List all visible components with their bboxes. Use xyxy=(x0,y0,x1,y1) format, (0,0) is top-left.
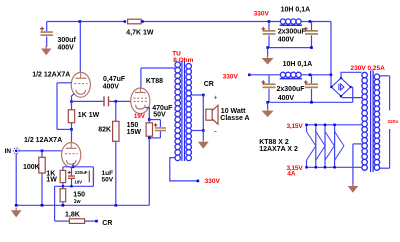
label heater 3,15V top xyxy=(287,123,304,130)
svg-text:CR: CR xyxy=(204,81,214,88)
svg-text:10 Watt: 10 Watt xyxy=(221,108,246,115)
svg-text:15W: 15W xyxy=(127,129,142,136)
bridge corner squares xyxy=(330,77,351,97)
label IN xyxy=(5,148,12,155)
wire J1 shield to ground bus xyxy=(15,154,17,206)
wire bridge AC2 to transformer tap xyxy=(342,97,362,99)
svg-text:KT88 X 2: KT88 X 2 xyxy=(259,139,289,146)
node choke L1 left xyxy=(268,20,271,23)
svg-text:4A: 4A xyxy=(287,171,296,178)
capacitor C2 220uF 16V plates xyxy=(68,175,75,179)
wire cathode loop top xyxy=(149,119,160,121)
wire V2 cathode lead xyxy=(72,163,74,167)
label V1 xyxy=(32,72,70,79)
wire KT88 plate lead xyxy=(140,68,142,92)
label R7 value xyxy=(127,122,142,136)
wire 330V terminal to choke L2 xyxy=(249,74,280,76)
wire TU primary bottom to 330V terminal xyxy=(170,158,198,181)
svg-text:220v: 220v xyxy=(388,119,399,125)
capacitor C1 300uF 400V lead xyxy=(46,22,48,48)
svg-text:1,8K: 1,8K xyxy=(65,211,80,218)
wire node to bridge left corner xyxy=(330,75,332,86)
wire C4 to KT88 grid xyxy=(109,100,131,102)
wire bridge minus to filter rail xyxy=(351,87,353,102)
node rectifier plus junction xyxy=(330,74,333,77)
svg-text:82K: 82K xyxy=(98,126,111,133)
node ground bus at R3 xyxy=(41,204,44,207)
resistor R3 100K xyxy=(39,157,45,173)
svg-text:Classe A: Classe A xyxy=(220,115,249,122)
transformer TA core xyxy=(371,71,374,173)
svg-text:400V: 400V xyxy=(58,44,75,51)
label R6 value xyxy=(65,211,80,218)
wire filter1 bottom rail xyxy=(268,47,312,49)
node filter2 rail right xyxy=(310,101,313,104)
resistor R4 1K 1W leads xyxy=(62,167,64,187)
wire TU secondary bottom tap xyxy=(191,130,203,132)
label C6 C7 value xyxy=(278,29,307,44)
wire choke L2 to rectifier xyxy=(301,74,331,76)
label heater current 4A xyxy=(287,171,296,178)
capacitor C6 plus xyxy=(261,27,265,31)
node speaker minus junction xyxy=(202,129,205,132)
resistor R7 150 15W xyxy=(146,123,152,136)
label speaker plus xyxy=(214,96,218,102)
wire cathode loop right upper xyxy=(159,120,161,128)
capacitor C1 300uF 400V plates xyxy=(41,31,53,36)
wire input to V2 grid xyxy=(19,150,62,152)
label CR feedback xyxy=(102,220,112,227)
wire filter1 rail to ground xyxy=(267,48,269,57)
wire filter2 rail to ground xyxy=(267,102,269,110)
wire B+ rail drop to rectifier node xyxy=(330,22,332,75)
svg-text:16V: 16V xyxy=(74,180,82,185)
capacitor C6 2x300uF 400V lead xyxy=(268,22,270,48)
wire cathode net right leg xyxy=(92,167,94,187)
label speaker minus xyxy=(214,127,217,136)
resistor R3 100K leads xyxy=(41,151,43,206)
wire TA primary bottom to mains xyxy=(380,129,390,168)
svg-text:220uF: 220uF xyxy=(75,170,88,175)
triode V2 1/2 12AX7A lower xyxy=(62,143,81,168)
resistor R6 1,8K feedback xyxy=(69,219,84,224)
triode V1 1/2 12AX7A upper xyxy=(71,72,90,97)
svg-text:150: 150 xyxy=(73,192,85,199)
wire V2 plate lead xyxy=(70,129,72,148)
svg-text:150: 150 xyxy=(127,122,139,129)
svg-text:CR: CR xyxy=(102,220,112,227)
resistor R8 82K xyxy=(113,121,119,141)
label C3 value xyxy=(102,170,114,183)
resistor R5 150 1w xyxy=(60,189,66,202)
capacitor C2 plus sign xyxy=(68,171,71,174)
label 330V at TU xyxy=(205,178,221,185)
svg-text:400V: 400V xyxy=(103,83,120,90)
wire B+ rail mid segment xyxy=(143,21,280,23)
node filter2 rail left xyxy=(266,101,269,104)
ground below C1 xyxy=(41,46,52,55)
node choke L1 right xyxy=(309,20,312,23)
svg-text:2x300uF: 2x300uF xyxy=(278,29,307,36)
svg-text:230V 0,25A: 230V 0,25A xyxy=(351,65,386,72)
node C2 bottom junction xyxy=(70,185,72,187)
wire V1 plate lead xyxy=(79,22,81,78)
node V1 plate tap on B+ rail xyxy=(79,20,82,23)
pentode V3 KT88 xyxy=(131,88,150,114)
node CR feedback terminal xyxy=(95,220,98,223)
capacitor C4 0,47uF 400V plates xyxy=(103,96,109,106)
capacitor C9 plates xyxy=(305,83,318,88)
resistor R7 150 15W leads xyxy=(148,120,150,138)
label R5 value xyxy=(73,192,85,205)
wire plate to OT primary top xyxy=(141,67,175,69)
wire filter2 bottom rail to rectifier minus xyxy=(268,101,353,103)
svg-text:330V: 330V xyxy=(205,178,221,185)
capacitor C5 470uF 50V plates xyxy=(155,127,166,131)
node ground bus at J1 xyxy=(15,204,18,207)
transformer TU secondary winding xyxy=(186,64,192,161)
wire heater bottom rail xyxy=(307,166,362,168)
node grid/R3 junction xyxy=(41,150,44,153)
svg-text:10H 0,1A: 10H 0,1A xyxy=(281,7,311,14)
capacitor C8 plates xyxy=(263,83,276,88)
transformer TA secondary winding xyxy=(362,72,368,170)
wire TA center tap to ground xyxy=(353,144,362,184)
svg-text:1/2 12AX7A: 1/2 12AX7A xyxy=(24,137,62,144)
svg-text:330V: 330V xyxy=(254,10,270,17)
svg-text:300uf: 300uf xyxy=(58,37,77,44)
svg-text:330V: 330V xyxy=(223,73,239,80)
node ground bus at R5 xyxy=(62,204,65,207)
wire speaker branch vertical xyxy=(202,95,204,131)
node R1 left terminal xyxy=(123,20,126,23)
wire bridge AC1 to transformer top xyxy=(341,72,362,78)
label mains 220v xyxy=(388,119,399,125)
resistor R1 4,7K 1W xyxy=(128,19,142,24)
wire cathode loop right lower xyxy=(159,131,161,138)
transformer TA primary winding xyxy=(374,74,380,170)
transformer TU core xyxy=(182,61,185,161)
label R2 value xyxy=(78,112,100,119)
node 330V terminal at TU xyxy=(197,180,200,183)
svg-text:1K 1W: 1K 1W xyxy=(78,112,100,119)
node filter1 rail right xyxy=(310,46,313,49)
svg-text:1W: 1W xyxy=(46,177,57,184)
capacitor C3 1uF 50V plates xyxy=(89,171,94,183)
capacitor C9 plus xyxy=(304,80,308,84)
wire B+ rail right segment xyxy=(301,21,331,23)
svg-text:-: - xyxy=(214,127,217,136)
node 330V output terminal xyxy=(248,74,251,77)
wire V1 cathode to C4 xyxy=(72,100,104,102)
svg-text:2x300uF: 2x300uF xyxy=(277,86,306,93)
label V2 xyxy=(24,137,62,144)
label V3 xyxy=(146,78,163,85)
label R8 value xyxy=(98,126,111,133)
wire speaker minus to ground xyxy=(202,131,204,141)
wire cathode network to ground bus xyxy=(148,138,150,205)
transformer TU primary winding xyxy=(175,62,181,161)
label TU impedance 8 Ohm xyxy=(173,57,193,64)
label TU xyxy=(172,51,181,58)
resistor R5 150 1w leads xyxy=(62,186,64,205)
label R4 value xyxy=(46,170,57,183)
label CR at speaker xyxy=(204,81,214,88)
label C2 value xyxy=(74,170,88,185)
label heater 3,15V bottom xyxy=(287,165,304,172)
wire cathode loop bottom xyxy=(149,137,160,139)
label 330V mid xyxy=(223,73,239,80)
wire V1 grid to lower plate link xyxy=(57,83,72,130)
capacitor C8 2x300uF 400V lead xyxy=(268,75,270,103)
resistor R8 82K leads xyxy=(115,101,117,205)
wire R6 to CR terminal xyxy=(85,220,97,222)
node ground bus at R8 xyxy=(115,204,118,207)
bridge rectifier D1 diamond xyxy=(331,78,350,96)
wire KT88 cathode lead xyxy=(145,108,149,120)
svg-text:50V: 50V xyxy=(102,176,114,183)
ground TA center tap xyxy=(348,184,359,193)
inductor L2 10H 0,1A xyxy=(280,72,302,78)
svg-text:10H 0,1A: 10H 0,1A xyxy=(283,61,313,68)
node lower plate junction xyxy=(70,128,73,131)
svg-text:1/2 12AX7A: 1/2 12AX7A xyxy=(32,72,70,79)
capacitor C6 plates xyxy=(263,30,276,35)
node KT88 cathode bottom junction xyxy=(148,137,151,140)
svg-text:400V: 400V xyxy=(278,95,295,102)
wire cathode net bottom rail xyxy=(55,185,94,187)
label V3 cathode voltage 19V xyxy=(134,113,146,120)
label TA rating 230V 0,25A xyxy=(351,65,386,72)
ground filter2 xyxy=(262,108,274,117)
label R1 value xyxy=(126,30,154,37)
label R3 value xyxy=(23,164,40,171)
node speaker plus junction xyxy=(202,94,205,97)
wire heater top rail xyxy=(307,124,362,126)
svg-text:1w: 1w xyxy=(74,199,82,205)
connector J1 input jack xyxy=(13,148,19,154)
svg-text:3,15V: 3,15V xyxy=(287,123,304,130)
wire feedback from cathode net xyxy=(55,186,70,221)
label C4 value xyxy=(103,76,126,90)
inductor L1 10H 0,1A xyxy=(280,19,302,25)
resistor R4 1K 1W xyxy=(60,170,66,182)
wire V1 cathode lead xyxy=(72,94,75,102)
node V1 cathode junction xyxy=(70,100,73,103)
label heater loads 12AX7A X 2 xyxy=(259,146,298,153)
label C5 value xyxy=(152,105,173,118)
node choke L2 right xyxy=(309,74,312,77)
label C1 value xyxy=(58,37,77,51)
node KT88 grid junction xyxy=(115,100,118,103)
capacitor C9 2x300uF 400V lead xyxy=(311,75,313,103)
heater filaments F1-F4 xyxy=(305,124,344,169)
capacitor C7 2x300uF 400V lead xyxy=(311,22,313,48)
svg-text:4,7K 1W: 4,7K 1W xyxy=(126,30,154,37)
wire cathode net top rail xyxy=(63,166,94,168)
wire TA primary top to mains xyxy=(380,76,390,111)
label speaker 10 Watt xyxy=(220,108,249,122)
label 330V top xyxy=(254,10,270,17)
ground filter1 xyxy=(262,56,274,65)
svg-text:12AX7A X 2: 12AX7A X 2 xyxy=(259,146,298,153)
ground symbol main xyxy=(11,208,22,218)
capacitor C5 plus sign xyxy=(154,123,158,127)
label C8 C9 value xyxy=(277,86,306,102)
label heater loads KT88 X 2 xyxy=(259,139,289,146)
ground below speaker xyxy=(198,139,209,149)
capacitor C2 220uF 16V leads xyxy=(71,167,73,187)
wire B+ top rail left segment xyxy=(47,21,125,23)
capacitor C7 plates xyxy=(305,30,318,35)
capacitor C8 plus xyxy=(261,80,265,84)
resistor R2 1K 1W leads xyxy=(71,102,73,130)
node R1 right terminal xyxy=(141,20,144,23)
node filter1 rail left xyxy=(266,46,269,49)
svg-text:400V: 400V xyxy=(278,37,295,44)
wire TU secondary top tap xyxy=(191,94,203,96)
bridge diode glyph xyxy=(339,84,344,91)
svg-text:0,47uF: 0,47uF xyxy=(103,76,126,83)
svg-text:50V: 50V xyxy=(153,111,166,118)
label L2 value xyxy=(283,61,313,68)
speaker LS1 xyxy=(206,105,218,124)
capacitor C7 plus xyxy=(304,27,308,31)
resistor R2 1K 1W xyxy=(68,110,74,123)
node KT88 cathode top junction xyxy=(148,118,151,121)
wire ground bus xyxy=(16,204,149,206)
node V2 cathode junction xyxy=(72,166,75,169)
svg-text:IN: IN xyxy=(5,148,12,155)
label L1 value xyxy=(281,7,311,14)
node R4/R5 junction xyxy=(62,185,64,187)
svg-text:100K: 100K xyxy=(23,164,40,171)
capacitor C1 plus sign xyxy=(40,27,44,31)
svg-text:19V: 19V xyxy=(134,113,146,120)
svg-text:KT88: KT88 xyxy=(146,78,163,85)
svg-text:+: + xyxy=(214,96,218,102)
